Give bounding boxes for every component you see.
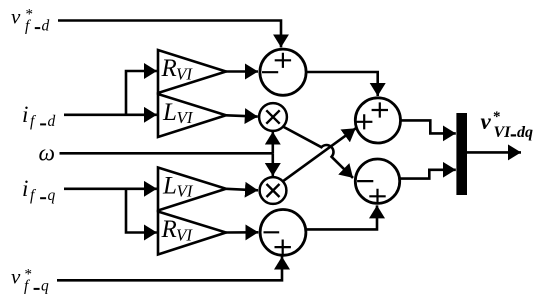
wire omega line <box>60 152 273 155</box>
svg-text:d: d <box>42 18 50 35</box>
summing junction S3 <box>355 159 399 204</box>
svg-text:q: q <box>48 187 56 204</box>
svg-text:d: d <box>48 113 56 130</box>
wire T3 to M2 <box>226 189 258 191</box>
wire i_f_q to L_VI T3 <box>64 188 157 191</box>
input label v*_f_d <box>11 5 50 35</box>
svg-text:i: i <box>22 176 28 201</box>
summing junction S2 <box>355 98 400 143</box>
wire S4 to S3 bottom <box>306 205 377 229</box>
svg-text:ω: ω <box>39 140 56 165</box>
gain block L_VI T3 <box>158 168 226 211</box>
wire T4 to S4 <box>226 231 258 234</box>
wire omega up arrow to M1 <box>271 132 274 154</box>
output label v*_VI_dq <box>481 109 534 141</box>
wire i_f_d to L_VI T2 <box>64 114 157 117</box>
wire S3 to bar <box>400 170 455 179</box>
svg-text:f: f <box>30 187 37 204</box>
svg-text:VI: VI <box>176 225 193 244</box>
gain block L_VI T2 <box>158 94 226 137</box>
svg-text:v: v <box>481 109 492 134</box>
wire v*_f_q to S4 bottom <box>57 257 282 281</box>
summing junction S1 <box>260 49 306 95</box>
svg-text:q: q <box>41 278 49 295</box>
multiplier M2 <box>260 177 287 204</box>
svg-text:L: L <box>162 172 177 199</box>
gain block R_VI T1 <box>158 50 226 93</box>
input label i_f_q <box>22 176 56 204</box>
wire v*_f_d to S1 <box>58 21 281 48</box>
svg-text:L: L <box>162 99 177 126</box>
wire branch i_f_d to R_VI T1 <box>126 71 157 115</box>
svg-text:R: R <box>161 216 177 243</box>
svg-text:v: v <box>11 265 21 289</box>
svg-text:*: * <box>493 109 501 125</box>
mux bar <box>456 113 467 195</box>
gain block R_VI T4 <box>158 212 226 255</box>
svg-text:VI: VI <box>177 108 194 127</box>
input label v*_f_q <box>11 265 49 295</box>
wire M1 to S3 diagonal with hop <box>283 127 353 178</box>
multiplier M1 <box>259 103 287 131</box>
wire S2 to bar <box>401 120 456 133</box>
svg-text:dq: dq <box>517 124 533 141</box>
svg-text:i: i <box>22 102 28 127</box>
svg-text:VI: VI <box>176 64 193 83</box>
svg-text:VI: VI <box>494 124 512 141</box>
wire omega down arrow to M2 <box>271 153 274 176</box>
svg-text:f: f <box>30 113 37 130</box>
wire bar to output arrow <box>467 151 521 154</box>
wire branch i_f_q to R_VI T4 <box>126 189 157 233</box>
input label i_f_d <box>22 102 56 130</box>
wire S1 to S2 <box>306 72 378 96</box>
svg-text:VI: VI <box>177 182 194 201</box>
wire T1 to S1 <box>226 70 258 73</box>
svg-text:R: R <box>161 55 177 82</box>
wire T2 to M1 <box>226 115 258 116</box>
summing junction S4 <box>260 210 306 256</box>
wire M2 to S2 diagonal <box>283 128 356 181</box>
svg-text:v: v <box>11 5 21 29</box>
